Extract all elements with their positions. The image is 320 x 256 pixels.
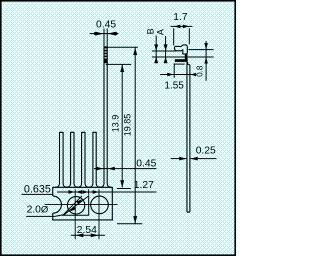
vertical centerline hole H2 / 2.54 extension [98,189,100,239]
dimension 0.25 with arrows at shaft [171,157,217,161]
dimension 0.45 top: extension lines [104,29,107,47]
dimension 0.8 vertical line with arrows [204,41,208,81]
extension line beak bottom (B/A upper) [152,50,176,52]
pin P2 front view [66,132,78,187]
extension line foot top level (B/A lower + 0.8 lower) [152,56,214,58]
dimension 0.45 top: dim line and arrows [90,32,119,36]
svg-text:1.55: 1.55 [164,81,184,92]
extension line pin tip (19.85) [106,46,138,48]
svg-text:0.25: 0.25 [196,145,216,156]
pin P1 front view [55,132,67,187]
mid tick on 0.635/1.27 dim line [88,189,90,195]
triangle gusset below hole H1 [63,196,88,215]
svg-text:0.45: 0.45 [136,158,156,169]
svg-text:0.45: 0.45 [96,20,116,31]
pin P5 crimp striped section [103,46,107,63]
extension line crimp bottom (13.9) [106,63,131,65]
hook solid mass and foot bar [175,53,188,65]
svg-text:A: A [156,29,166,35]
dimension 2.54 bottom [71,233,105,237]
diagonal diameter leader through hole H1 with arrows [55,196,82,217]
svg-text:1.27: 1.27 [134,180,154,191]
background lattice [0,0,236,256]
svg-text:0.635: 0.635 [24,183,51,195]
pin P3 front view [77,132,89,187]
svg-text:2.0Ø: 2.0Ø [27,205,49,216]
dimension 1.55 dim line with arrows [160,73,196,77]
leader line under 0.635 text [22,193,53,195]
svg-text:1.7: 1.7 [173,12,188,23]
border frame [1,1,236,256]
vertical centerline hole H1 / 2.54 extension [74,189,76,239]
hole H1 circle [67,197,84,214]
hook inner outline side view [175,49,185,55]
ledge line under foot [175,63,185,65]
dimension 13.9 vertical line with arrows [117,64,131,188]
hole H2 circle [91,196,109,214]
dimension 19.85 vertical line with arrows [117,47,142,224]
leader under 2.0 phi text [26,215,55,217]
dimension A vertical line with arrows [164,36,168,63]
dimension 1.7 top [171,25,193,46]
svg-text:0.8: 0.8 [196,65,205,77]
body outline front view [52,187,113,220]
pin P4 front view [89,132,101,187]
dimension 0.635 / 1.27 shared dim line [57,190,157,194]
horizontal centerline through holes [45,204,118,206]
svg-text:B: B [146,28,156,34]
extension line hook top right (0.8 upper) [188,49,213,51]
notch half hole on body left edge [53,196,62,213]
pin P5 long pin shaft front view [100,63,112,187]
dimension 0.45 right (pin width at body) [94,167,157,171]
dimension B vertical line with arrows [154,36,158,64]
dimension 1.55: extension line from beak [173,63,175,78]
svg-text:2.54: 2.54 [77,225,97,236]
hook outer outline side view [174,45,187,54]
svg-text:13.9: 13.9 [111,115,121,133]
svg-text:19.85: 19.85 [123,114,133,137]
pin shaft side view [187,62,190,212]
